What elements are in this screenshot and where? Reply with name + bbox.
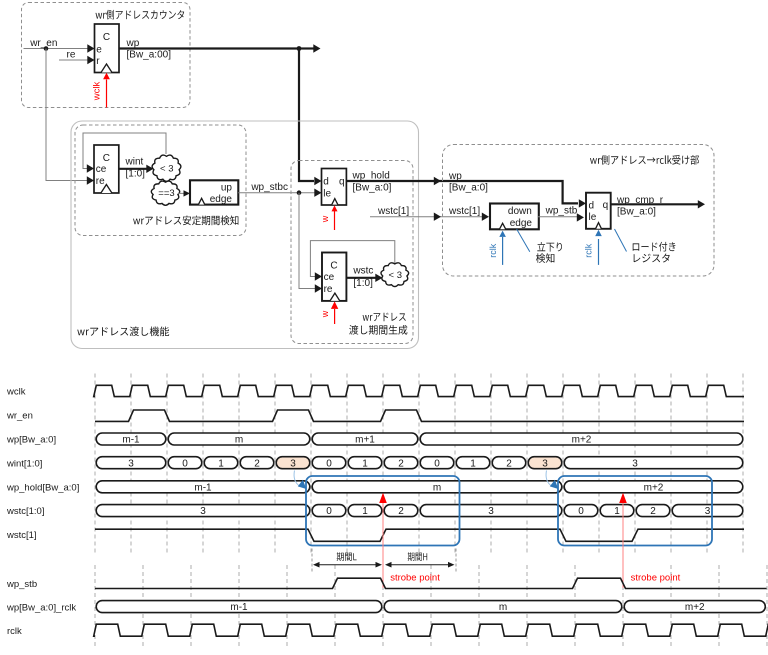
svg-text:rclk: rclk — [7, 626, 22, 637]
svg-text:wr_en: wr_en — [29, 38, 57, 49]
signal: rclk waveform — [94, 624, 768, 636]
wire: wint bus to cloud — [119, 168, 147, 170]
svg-text:wr_en: wr_en — [6, 411, 33, 422]
svg-text:0: 0 — [434, 458, 440, 469]
wire: wstc bus to cloud — [346, 277, 376, 279]
svg-text:m: m — [235, 435, 243, 446]
svg-text:wp: wp — [126, 38, 140, 49]
svg-text:strobe point: strobe point — [390, 572, 440, 583]
svg-text:1: 1 — [470, 458, 476, 469]
block: wr側アドレスーrclk受け部 dashed box — [443, 145, 715, 277]
svg-text:3: 3 — [290, 458, 296, 469]
dimension: 期間L — [311, 549, 313, 573]
comparator cloud: ==3 — [151, 181, 179, 205]
comparator cloud: < 3 (wstc) — [381, 263, 409, 287]
wire: wstc feedback loop to ce — [310, 241, 394, 277]
svg-text:wp_hold: wp_hold — [352, 171, 390, 182]
block: wrアドレス安定期間検知 dashed box — [75, 125, 246, 236]
svg-text:1: 1 — [362, 506, 368, 517]
strobe marker 1 (red) — [382, 503, 384, 588]
wire: wp_stb — [538, 216, 577, 218]
signal: wp_rclk bus — [96, 601, 382, 613]
node: wr_en junction — [44, 46, 49, 51]
svg-text:==3: ==3 — [158, 188, 174, 199]
wire: wr_en to wint counter re — [46, 49, 89, 181]
block: up edge detector — [190, 180, 238, 204]
wire: wp_hold output bus — [346, 181, 578, 203]
label: 渡し期間生成 (line 2) — [349, 325, 407, 335]
counter U4 (wstc counter) — [322, 253, 346, 301]
svg-text:0: 0 — [326, 458, 332, 469]
svg-text:strobe point: strobe point — [631, 572, 681, 583]
svg-text:wp_hold[Bw_a:0]: wp_hold[Bw_a:0] — [6, 482, 79, 493]
svg-text:C: C — [330, 261, 337, 272]
highlight: blue box 1 — [306, 476, 460, 546]
dimension: 期間H — [390, 564, 449, 566]
label: wrアドレス (line 1) — [363, 313, 406, 322]
label: wr側アドレスーrclk受け部 — [590, 155, 699, 165]
svg-text:2: 2 — [650, 506, 656, 517]
svg-text:[Bw_a:0]: [Bw_a:0] — [353, 182, 392, 193]
svg-text:3: 3 — [488, 506, 494, 517]
rclk arrow for down edge (blue) — [502, 237, 504, 265]
wire: wp stub arrow — [299, 47, 314, 49]
svg-text:m+2: m+2 — [685, 602, 705, 613]
svg-text:3: 3 — [128, 458, 134, 469]
svg-text:1: 1 — [614, 506, 620, 517]
callout: 立下り検知 — [517, 229, 530, 252]
block: wrアドレス渡し期間生成 dashed box — [291, 161, 413, 344]
wire: wp_cmp_r output — [611, 203, 698, 205]
wire: ==3 to up edge — [178, 192, 185, 194]
comparator cloud: < 3 — [152, 155, 181, 181]
signal: wr_en waveform — [95, 410, 744, 421]
wire: wstc[1] to rclk block — [370, 216, 483, 218]
block: wr側アドレスカウンタ dashed box — [22, 3, 191, 108]
wire: wp_stbc down to wstc counter re — [299, 193, 316, 289]
counter U1 (wp address counter) — [95, 24, 120, 73]
svg-text:wint: wint — [125, 156, 144, 167]
svg-text:edge: edge — [510, 218, 533, 229]
counter U2 (wint counter) — [94, 145, 119, 193]
svg-text:ce: ce — [96, 164, 107, 175]
svg-text:3: 3 — [632, 458, 638, 469]
svg-text:re: re — [96, 176, 105, 187]
svg-text:3: 3 — [200, 506, 206, 517]
svg-text:0: 0 — [326, 506, 332, 517]
svg-text:w: w — [320, 215, 330, 223]
svg-text:C: C — [103, 32, 110, 43]
wire: wint feedback loop to ce — [83, 133, 166, 169]
signal: wp_hold bus — [96, 481, 310, 493]
strobe marker 2 (red) — [622, 503, 624, 588]
svg-text:wclk: wclk — [92, 82, 103, 102]
svg-text:d: d — [323, 176, 329, 187]
callout curve: wint 3 to wp_hold m — [294, 471, 299, 487]
svg-text:d: d — [589, 200, 595, 211]
wclk arrow for wp_hold (red) — [334, 211, 336, 230]
svg-text:wp_stb: wp_stb — [545, 205, 578, 216]
svg-text:q: q — [339, 176, 345, 187]
signal: wstc bus — [96, 505, 310, 517]
svg-text:2: 2 — [506, 458, 512, 469]
wire: rclk-domain gridlines — [95, 565, 767, 648]
svg-text:up: up — [221, 183, 233, 194]
svg-text:rclk: rclk — [488, 243, 498, 257]
block: wrアドレス渡し機能 outer box — [71, 121, 419, 349]
svg-text:[Bw_a:00]: [Bw_a:00] — [127, 49, 172, 60]
svg-text:0: 0 — [578, 506, 584, 517]
svg-text:wstc[1]: wstc[1] — [448, 206, 480, 217]
svg-text:1: 1 — [218, 458, 224, 469]
svg-text:2: 2 — [398, 506, 404, 517]
wire: wr_en input — [24, 48, 90, 50]
svg-text:re: re — [324, 284, 333, 295]
wclk arrow for wstc counter (red) — [334, 309, 336, 324]
wire: wp_stbc — [238, 192, 315, 194]
svg-text:3: 3 — [705, 506, 711, 517]
svg-text:[Bw_a:0]: [Bw_a:0] — [617, 207, 656, 218]
svg-text:3: 3 — [542, 458, 548, 469]
signal: wp bus — [96, 433, 166, 445]
svg-text:wstc[1:0]: wstc[1:0] — [6, 506, 45, 517]
signal: wint bus — [96, 457, 166, 469]
signal: wclk waveform — [94, 385, 744, 396]
svg-text:wclk: wclk — [6, 387, 26, 398]
svg-text:wp: wp — [448, 171, 462, 182]
svg-text:wp[Bw_a:0]_rclk: wp[Bw_a:0]_rclk — [6, 602, 76, 613]
svg-text:ce: ce — [324, 272, 335, 283]
svg-text:< 3: < 3 — [160, 164, 173, 175]
svg-text:< 3: < 3 — [389, 270, 402, 281]
node: wp junction — [297, 46, 302, 51]
rclk arrow for wp_cmp_r (blue) — [598, 239, 600, 265]
label: wrアドレス渡し機能 — [77, 327, 169, 337]
svg-text:down: down — [508, 206, 532, 217]
svg-text:[1:0]: [1:0] — [126, 169, 146, 180]
node: wp_stbc junction — [297, 190, 302, 195]
svg-text:m+1: m+1 — [355, 435, 375, 446]
svg-text:1: 1 — [362, 458, 368, 469]
svg-text:wp[Bw_a:0]: wp[Bw_a:0] — [6, 435, 56, 446]
register U5 (wp_cmp_r latch) — [586, 193, 611, 229]
svg-text:wint[1:0]: wint[1:0] — [6, 458, 42, 469]
svg-text:C: C — [103, 153, 110, 164]
svg-text:0: 0 — [182, 458, 188, 469]
svg-text:m-1: m-1 — [230, 602, 248, 613]
svg-text:m+2: m+2 — [572, 435, 592, 446]
svg-text:q: q — [603, 200, 609, 211]
label: wr側アドレスカウンタ — [96, 10, 185, 20]
svg-text:[1:0]: [1:0] — [353, 278, 373, 289]
svg-text:m: m — [433, 482, 441, 493]
callout: ロード付きレジスタ — [615, 229, 627, 252]
svg-text:wstc: wstc — [352, 265, 373, 276]
svg-text:m+2: m+2 — [644, 482, 664, 493]
wire: wclk-domain gridlines — [95, 374, 743, 555]
svg-text:wp_stbc: wp_stbc — [250, 182, 288, 193]
svg-text:m-1: m-1 — [194, 482, 212, 493]
svg-text:2: 2 — [398, 458, 404, 469]
wire: wp down to wp_hold d input — [299, 49, 314, 182]
callout curve: wint 3 to wp_hold m+2 — [546, 471, 551, 487]
svg-text:edge: edge — [210, 194, 233, 205]
signal: wstc[1] waveform — [95, 529, 744, 541]
svg-text:wp_cmp_r: wp_cmp_r — [616, 195, 664, 206]
block: down edge detector — [490, 204, 539, 230]
svg-text:e: e — [96, 44, 102, 55]
svg-text:m-1: m-1 — [122, 435, 140, 446]
label: wrアドレス安定期間検知 — [133, 216, 238, 226]
svg-text:wstc[1]: wstc[1] — [377, 206, 409, 217]
svg-text:re: re — [67, 49, 76, 60]
svg-text:[Bw_a:0]: [Bw_a:0] — [449, 182, 488, 193]
svg-text:m: m — [499, 602, 507, 613]
svg-text:w: w — [320, 310, 330, 318]
wire: re input — [59, 59, 89, 61]
highlight: blue box 2 — [558, 476, 712, 546]
signal: wp_stb waveform — [95, 578, 767, 588]
svg-text:2: 2 — [254, 458, 260, 469]
wclk clock arrow (red) — [106, 80, 108, 108]
wire: wp output bus — [119, 47, 299, 49]
svg-text:wstc[1]: wstc[1] — [6, 530, 37, 541]
register U3 (wp_hold latch) — [322, 169, 347, 206]
svg-text:wp_stb: wp_stb — [6, 579, 37, 590]
svg-text:le: le — [323, 188, 331, 199]
svg-text:le: le — [589, 212, 597, 223]
svg-text:rclk: rclk — [584, 243, 594, 257]
